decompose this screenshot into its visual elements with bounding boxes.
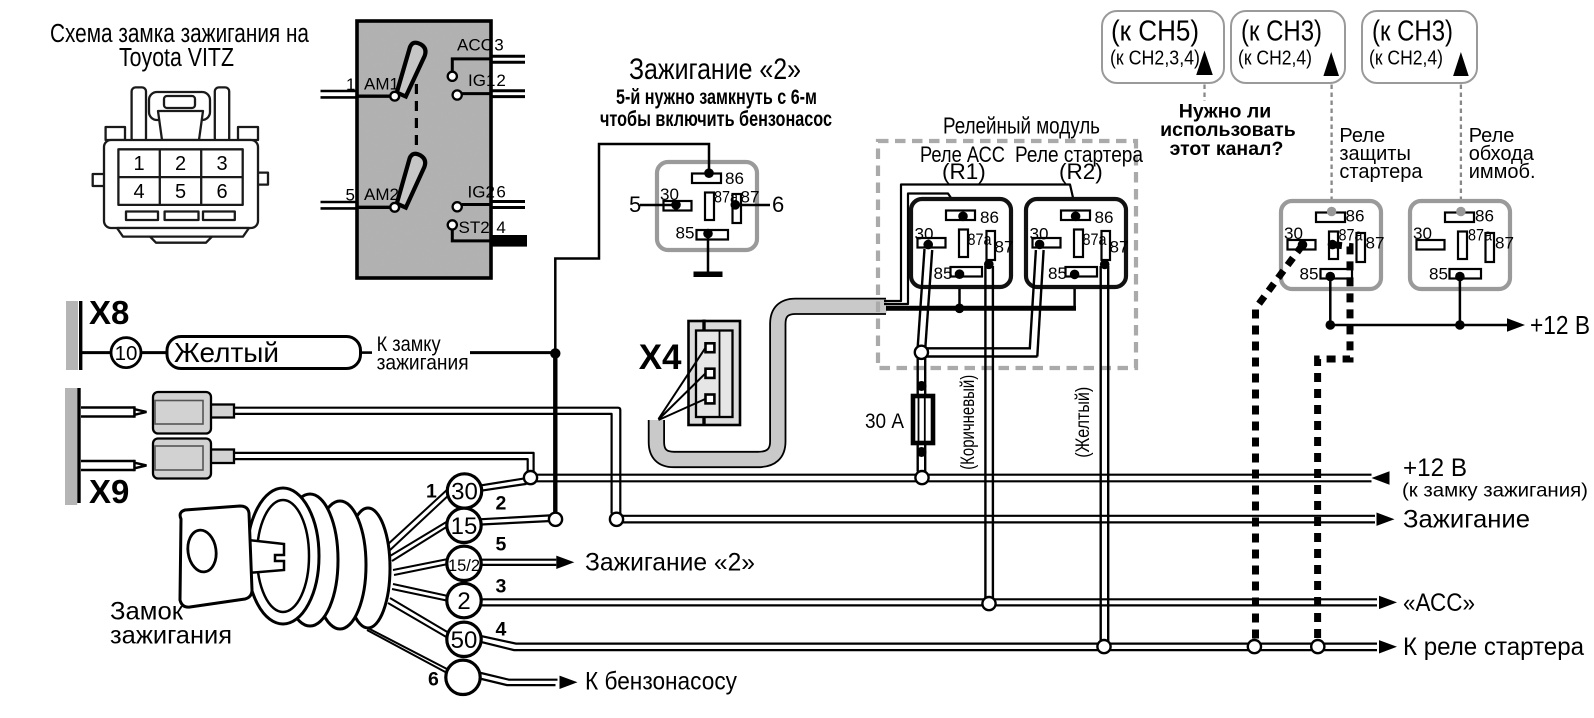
svg-text:стартера: стартера xyxy=(1339,161,1423,183)
svg-text:10: 10 xyxy=(115,342,138,365)
svg-text:2: 2 xyxy=(496,71,505,90)
svg-text:иммоб.: иммоб. xyxy=(1469,161,1536,183)
svg-text:зажигания: зажигания xyxy=(377,351,469,375)
svg-text:(R1): (R1) xyxy=(942,159,986,184)
svg-text:4: 4 xyxy=(496,218,505,237)
svg-text:87: 87 xyxy=(1366,234,1385,253)
svg-text:4: 4 xyxy=(496,619,507,641)
svg-text:(к СН3): (к СН3) xyxy=(1241,16,1322,48)
svg-text:87a: 87a xyxy=(1339,226,1363,245)
svg-text:«АСС»: «АСС» xyxy=(1403,589,1475,617)
svg-text:85: 85 xyxy=(676,224,695,243)
svg-text:чтобы включить бензонасос: чтобы включить бензонасос xyxy=(600,108,832,131)
svg-text:86: 86 xyxy=(725,169,744,188)
svg-text:1: 1 xyxy=(346,75,355,94)
svg-text:(к замку зажигания): (к замку зажигания) xyxy=(1402,480,1588,502)
svg-text:5-й нужно замкнуть с 6-м: 5-й нужно замкнуть с 6-м xyxy=(616,86,817,109)
svg-text:6: 6 xyxy=(772,192,784,217)
svg-text:(к СН2,4): (к СН2,4) xyxy=(1238,47,1312,70)
svg-text:AM1: AM1 xyxy=(364,75,399,94)
svg-text:30 А: 30 А xyxy=(865,409,905,433)
svg-text:4: 4 xyxy=(133,181,144,203)
svg-text:Зажигание «2»: Зажигание «2» xyxy=(585,549,755,577)
svg-text:2: 2 xyxy=(457,588,470,615)
svg-text:86: 86 xyxy=(1095,208,1114,227)
svg-text:зажигания: зажигания xyxy=(110,622,232,650)
svg-text:(Желтый): (Желтый) xyxy=(1073,387,1094,458)
svg-text:30: 30 xyxy=(451,479,478,506)
svg-text:5: 5 xyxy=(346,186,355,205)
svg-text:15/2: 15/2 xyxy=(448,557,480,575)
svg-text:86: 86 xyxy=(1475,207,1494,226)
svg-text:3: 3 xyxy=(216,153,227,175)
svg-text:86: 86 xyxy=(1346,207,1365,226)
svg-text:5: 5 xyxy=(496,534,507,556)
svg-text:(к СН5): (к СН5) xyxy=(1111,16,1199,48)
svg-text:Toyota VITZ: Toyota VITZ xyxy=(119,44,234,72)
svg-text:85: 85 xyxy=(1300,265,1319,284)
svg-text:(Коричневый): (Коричневый) xyxy=(958,375,979,470)
svg-text:X4: X4 xyxy=(639,338,682,377)
svg-text:IG2: IG2 xyxy=(468,183,495,202)
svg-text:Релейный модуль: Релейный модуль xyxy=(943,113,1100,139)
svg-text:Желтый: Желтый xyxy=(174,337,279,368)
svg-text:1: 1 xyxy=(426,481,437,503)
svg-text:3: 3 xyxy=(494,36,503,55)
svg-text:30: 30 xyxy=(1284,224,1303,243)
svg-text:86: 86 xyxy=(980,208,999,227)
svg-text:К реле стартера: К реле стартера xyxy=(1403,633,1584,661)
svg-text:6: 6 xyxy=(496,183,505,202)
svg-text:К бензонасосу: К бензонасосу xyxy=(585,668,737,696)
svg-text:этот канал?: этот канал? xyxy=(1170,138,1284,160)
svg-text:85: 85 xyxy=(1429,265,1448,284)
svg-text:ACC: ACC xyxy=(457,36,493,55)
svg-text:87: 87 xyxy=(995,238,1014,257)
svg-text:Зажигание «2»: Зажигание «2» xyxy=(629,53,801,86)
svg-text:5: 5 xyxy=(175,181,186,203)
svg-text:ST2: ST2 xyxy=(459,218,490,237)
svg-text:87a: 87a xyxy=(968,230,992,249)
svg-text:2: 2 xyxy=(496,493,507,515)
svg-text:+12 В: +12 В xyxy=(1530,310,1590,340)
svg-text:(R2): (R2) xyxy=(1059,159,1103,184)
svg-text:1: 1 xyxy=(133,153,144,175)
svg-text:AM2: AM2 xyxy=(364,185,399,204)
svg-text:Зажигание: Зажигание xyxy=(1403,506,1530,534)
svg-text:IG1: IG1 xyxy=(468,71,495,90)
svg-text:3: 3 xyxy=(496,576,507,598)
svg-text:X8: X8 xyxy=(89,294,129,331)
svg-text:+12 В: +12 В xyxy=(1403,454,1467,482)
svg-text:(к СН2,4): (к СН2,4) xyxy=(1369,47,1443,70)
svg-text:2: 2 xyxy=(175,153,186,175)
svg-text:6: 6 xyxy=(428,669,439,691)
svg-text:15: 15 xyxy=(451,513,478,540)
svg-text:87a: 87a xyxy=(1468,226,1492,245)
svg-text:87: 87 xyxy=(1110,238,1129,257)
svg-text:87: 87 xyxy=(1495,234,1514,253)
svg-text:X9: X9 xyxy=(89,473,129,510)
svg-text:85: 85 xyxy=(934,264,953,283)
svg-text:87: 87 xyxy=(741,188,760,207)
svg-text:5: 5 xyxy=(629,192,641,217)
svg-text:50: 50 xyxy=(451,627,478,654)
svg-text:30: 30 xyxy=(1413,224,1432,243)
svg-text:87a: 87a xyxy=(1083,230,1107,249)
svg-text:(к СН3): (к СН3) xyxy=(1372,16,1453,48)
svg-text:6: 6 xyxy=(216,181,227,203)
svg-text:(к СН2,3,4): (к СН2,3,4) xyxy=(1110,47,1200,70)
svg-text:85: 85 xyxy=(1048,264,1067,283)
